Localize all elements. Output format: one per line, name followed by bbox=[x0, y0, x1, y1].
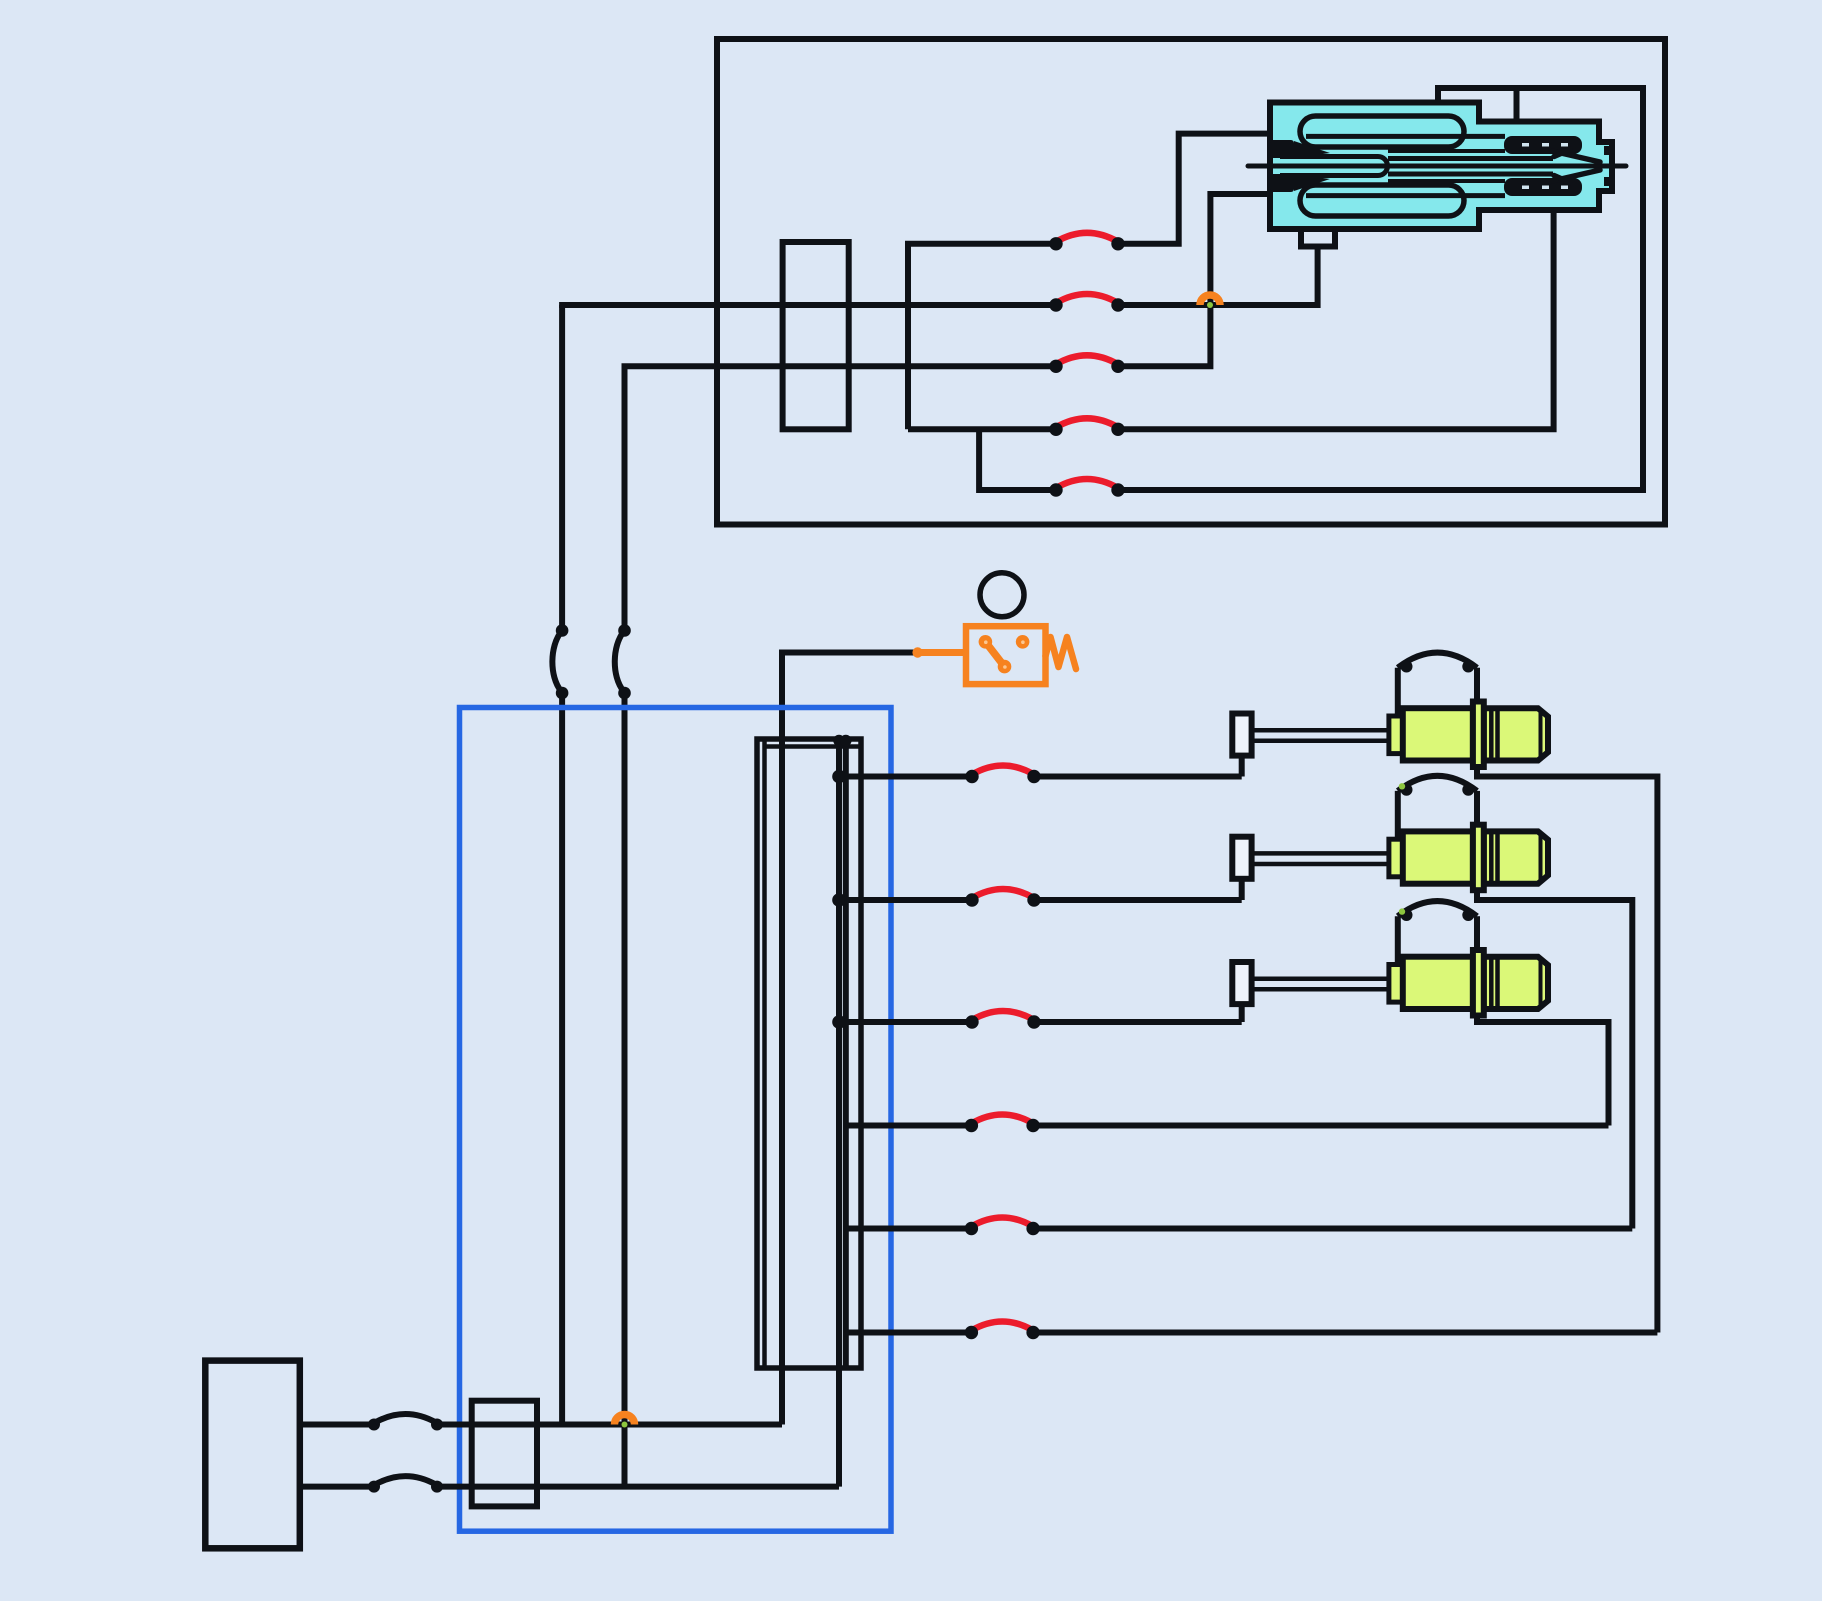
junction strip inner wall bbox=[762, 739, 767, 1368]
coil X1 left terminal blob (upper) bbox=[1270, 140, 1330, 158]
wire M2 tail bbox=[1477, 890, 1632, 1228]
coil X1 primary winding (bottom) bbox=[1300, 185, 1505, 216]
coil X1 inner sleeve lines bbox=[1388, 151, 1553, 181]
wire battery line 1 bbox=[300, 1422, 374, 1428]
wire row1 (coil terminal 1 feed) bbox=[908, 244, 1056, 429]
wire M3 tail bbox=[1477, 1016, 1609, 1126]
wire out row4 bbox=[846, 1123, 972, 1129]
coil X1 center axis rod bbox=[1248, 164, 1626, 169]
bus wire B (to output rows) bbox=[843, 739, 849, 1368]
connector C11 bbox=[965, 1322, 1040, 1340]
wire row2 (coil low-voltage feed) bbox=[562, 305, 1056, 308]
connector C10 bbox=[965, 1218, 1040, 1236]
relay K1 contacts bbox=[979, 635, 1030, 673]
coil X1 electrode wedge (lower) bbox=[1550, 170, 1600, 183]
ECU boundary box (blue) bbox=[460, 708, 892, 1532]
wire row4 (coil body bottom feed) bbox=[908, 426, 1056, 432]
injector M2 status dot bbox=[1399, 783, 1405, 789]
connector C4 bbox=[1049, 418, 1124, 436]
battery / power module G1 bbox=[205, 1361, 299, 1549]
coil X1 electrode wedge (upper) bbox=[1550, 150, 1600, 163]
ignition coil / glow plug X1 body bbox=[1270, 103, 1612, 230]
wire out row3 bbox=[839, 1019, 972, 1025]
coil X1 left terminal blob (lower) bbox=[1270, 174, 1330, 192]
coil X1 primary winding (top) bbox=[1300, 116, 1505, 147]
bulkhead connector J2 bbox=[472, 1401, 537, 1507]
connector C9 bbox=[965, 1115, 1040, 1133]
relay K1 spring (zigzag) bbox=[1046, 637, 1077, 669]
bus wire A (to battery line) bbox=[836, 739, 842, 1487]
bus junction dots bbox=[832, 735, 851, 1029]
grommet hop on line 2 bbox=[368, 1476, 443, 1493]
wire relay feed bbox=[782, 653, 918, 1425]
inline switch S1 bbox=[552, 624, 568, 699]
inline switch S2 bbox=[615, 624, 631, 699]
connector C8 bbox=[965, 1011, 1040, 1029]
injector M3 status dot bbox=[1399, 908, 1405, 914]
coil X1 tip contacts bbox=[1604, 146, 1614, 186]
wire M1 plug drop bbox=[1239, 756, 1245, 777]
wire out row2 bbox=[839, 897, 972, 903]
wire battery line 2 bbox=[300, 1484, 374, 1490]
wire M1 tail bbox=[1477, 767, 1657, 1333]
wire left drop 1 (row2 to battery line) bbox=[559, 305, 565, 631]
wire crossover hop (row2 over row3 vertical) bbox=[1200, 295, 1220, 308]
connector C6 bbox=[965, 766, 1040, 784]
connector C2 bbox=[1049, 294, 1124, 312]
wire M2 plug drop bbox=[1239, 879, 1245, 900]
connector block J1 bbox=[783, 242, 849, 429]
wire branch to coil collar top bbox=[1514, 88, 1520, 122]
wire left drop 2 (row3 to ground line) bbox=[622, 366, 628, 630]
wire crossover hop (line1 over drop 2) bbox=[615, 1415, 635, 1428]
wire M3 plug drop bbox=[1239, 1004, 1245, 1022]
solenoid injector M2 bbox=[1232, 776, 1548, 890]
coil X1 resistive element (upper, hatched) bbox=[1504, 136, 1582, 154]
wire row5 (coil top feed) bbox=[979, 429, 1056, 490]
junction strip outer frame bbox=[757, 739, 861, 1368]
wire row3 (coil terminal 2 feed) bbox=[625, 366, 1057, 369]
solenoid injector M3 bbox=[1232, 901, 1548, 1015]
connector C1 bbox=[1049, 233, 1124, 251]
top harness outer loop wire bbox=[717, 39, 1665, 525]
wire out row1 bbox=[839, 774, 972, 780]
solenoid injector M1 bbox=[1232, 653, 1548, 767]
coil X1 bottom stub connector bbox=[1301, 229, 1335, 247]
wire out row5 bbox=[846, 1226, 972, 1232]
relay K1 box bbox=[966, 626, 1046, 684]
coil X1 resistive element (lower, hatched) bbox=[1504, 178, 1582, 196]
connector C5 bbox=[1049, 479, 1124, 497]
wire out row6 bbox=[846, 1330, 972, 1336]
grommet hop on line 1 bbox=[368, 1414, 443, 1431]
connector C7 bbox=[965, 889, 1040, 907]
relay K1 coil wire (orange lead) bbox=[912, 647, 966, 657]
coil X1 center electrode capsule bbox=[1280, 157, 1388, 176]
indicator lamp circle bbox=[980, 573, 1024, 617]
connector C3 bbox=[1049, 355, 1124, 373]
